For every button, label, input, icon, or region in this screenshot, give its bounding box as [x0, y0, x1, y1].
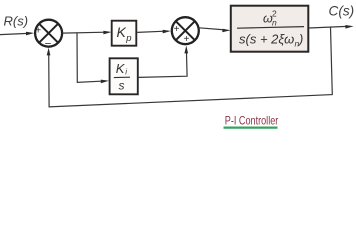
- wire Ki/s output up into summing junction S2: [139, 46, 189, 78]
- wire Kp output to summing junction S2: [137, 30, 171, 34]
- node R(s) input label: [4, 14, 29, 29]
- svg-text:P-I Controller: P-I Controller: [225, 113, 279, 127]
- summing junction S2: [172, 17, 199, 45]
- svg-text:i: i: [125, 68, 127, 77]
- wire input arrow into summing junction S1: [0, 32, 34, 36]
- wire feedback from node B down, across and up into S1 minus input: [47, 27, 333, 107]
- node C(s) output label: [329, 3, 355, 18]
- svg-text:R(s): R(s): [4, 14, 29, 29]
- svg-text:K: K: [117, 24, 127, 40]
- svg-text:+: +: [35, 25, 41, 36]
- wire S1 output to Kp with branch node A: [62, 31, 111, 35]
- svg-text:+: +: [184, 34, 190, 45]
- svg-text:−: −: [45, 38, 52, 50]
- svg-text:p: p: [125, 33, 131, 44]
- block Ki/s (integral term): [110, 58, 138, 94]
- block Kp (proportional gain): [112, 21, 137, 46]
- svg-text:n: n: [272, 18, 277, 28]
- summing junction S1: [35, 20, 62, 51]
- wire branch node A down to Ki/s block: [77, 33, 109, 83]
- svg-text:+: +: [174, 24, 180, 35]
- wire S2 output to plant block: [199, 28, 231, 33]
- svg-text:s(s + 2ξω: s(s + 2ξω: [239, 32, 294, 47]
- svg-text:s: s: [119, 79, 125, 93]
- svg-text:C(s): C(s): [329, 3, 355, 18]
- wire plant output to C(s) with branch node B: [309, 25, 354, 29]
- label P-I Controller: [224, 113, 279, 127]
- block G(s) plant wn^2/(s(s+2 xi wn)): [231, 6, 308, 52]
